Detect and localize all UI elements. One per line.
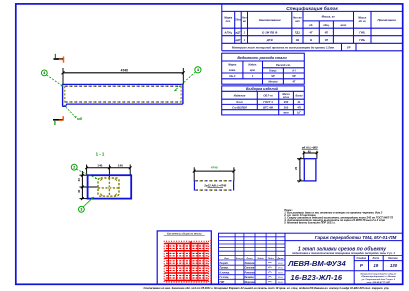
svg-text:Провер.: Провер. <box>220 268 229 270</box>
svg-text:Б-1М ПВ Ф: Б-1М ПВ Ф <box>262 31 278 35</box>
svg-text:Дата: Дата <box>276 258 284 260</box>
svg-text:Расход ст.: Расход ст. <box>276 63 291 67</box>
svg-text:Согласовано гл.инж. Заказчика: Согласовано гл.инж. Заказчика обл. №4 от… <box>144 286 390 290</box>
svg-text:Обоз: Обоз <box>235 19 242 22</box>
section 1-1 top dimension <box>85 165 131 178</box>
callout circle 3 section bottom <box>79 197 94 212</box>
svg-text:ул. Строителей дом 7 корп. 2: ул. Строителей дом 7 корп. 2 <box>361 278 396 281</box>
svg-text:шт: шт <box>295 20 300 23</box>
svg-text:Стадия: Стадия <box>357 257 367 260</box>
svg-text:4740: 4740 <box>211 165 218 169</box>
steel consumption table (vedomost) grid <box>222 53 305 84</box>
section 1-1 concrete outline <box>88 175 132 198</box>
title block center and right division lines <box>285 241 403 285</box>
svg-text:А-I: А-I <box>291 69 296 73</box>
svg-text:Н.контр.: Н.контр. <box>220 272 231 274</box>
beam top rebar dashed line <box>65 85 182 87</box>
svg-text:1В: 1В <box>296 38 300 42</box>
title block stage header <box>357 257 399 260</box>
svg-text:40: 40 <box>77 189 81 193</box>
svg-text:Эл-т: Эл-т <box>236 100 243 104</box>
weld leader mb at beam bottom-left <box>64 105 83 121</box>
svg-text:Казаков: Казаков <box>245 277 255 279</box>
callout circle 2 section top-left <box>71 164 97 179</box>
beam left stirrup dashed vertical <box>64 86 66 103</box>
red hatch grid <box>164 240 211 283</box>
svg-text:4740: 4740 <box>121 69 129 73</box>
svg-text:УР: УР <box>347 46 351 50</box>
svg-text:Кол: Кол <box>242 17 247 20</box>
svg-text:мин: мин <box>283 112 289 115</box>
title block stage values <box>360 263 398 268</box>
callout circle 4 left of beam <box>41 70 63 87</box>
svg-text:Соколов: Соколов <box>245 268 255 270</box>
svg-text:ЛЕВЯ-ВМ-ФУЗ4: ЛЕВЯ-ВМ-ФУЗ4 <box>287 259 346 268</box>
svg-text:Ст ВБПВЛ: Ст ВБПВЛ <box>232 106 247 110</box>
svg-text:Р: Р <box>360 263 363 268</box>
svg-text:09.05: 09.05 <box>278 273 283 275</box>
svg-text:1 - 1: 1 - 1 <box>96 151 105 156</box>
svg-text:Гараж переработки ТМ4, МУ-01-П: Гараж переработки ТМ4, МУ-01-ПМ <box>315 234 397 240</box>
section cut mark 1 top <box>54 54 64 63</box>
svg-text:Изделие: Изделие <box>234 94 246 98</box>
rebar detail pos.3 left dimension <box>297 157 304 182</box>
svg-text:40: 40 <box>77 178 81 182</box>
rebar detail pos.2 dimension <box>193 167 236 181</box>
section 1-1 left dimension <box>80 171 99 200</box>
svg-text:140: 140 <box>118 164 123 168</box>
svg-text:ГИБ: ГИБ <box>359 31 365 35</box>
svg-text:Наименование: Наименование <box>259 18 281 22</box>
svg-text:Подп.: Подп. <box>268 257 275 260</box>
specification table texts <box>223 5 396 50</box>
callout circle 4 right of beam <box>174 67 201 91</box>
beam elevation outline <box>62 84 183 107</box>
beam bottom rebar dashed line <box>65 101 182 103</box>
svg-text:200: 200 <box>284 100 289 104</box>
svg-text:подготовка и технологическая п: подготовка и технологическая планировка … <box>292 251 395 255</box>
svg-text:всех: всех <box>341 24 347 27</box>
svg-text:вДГ: вДГ <box>235 38 240 42</box>
svg-text:3: 3 <box>80 208 82 212</box>
svg-text:ед. кг: ед. кг <box>359 19 367 23</box>
rebar detail pos.3 top dimension <box>303 151 319 159</box>
section cut mark 1 bottom <box>53 116 63 125</box>
svg-text:09.05: 09.05 <box>278 282 283 284</box>
svg-text:140: 140 <box>97 164 102 168</box>
svg-text:арм.: арм. <box>250 69 256 72</box>
svg-text:ГД1: ГД1 <box>295 31 301 35</box>
section 1-1 stirrup cross ties <box>108 178 110 196</box>
svg-text:Лист: Лист <box>245 258 252 260</box>
svg-text:Разраб.: Разраб. <box>220 262 229 265</box>
svg-text:ГОСТ 4: ГОСТ 4 <box>263 100 273 104</box>
specification table grid <box>222 5 403 51</box>
svg-text:ГИП: ГИП <box>220 282 225 284</box>
title block signature rows <box>220 262 256 284</box>
svg-text:Ведомость расхода стали: Ведомость расхода стали <box>237 56 287 60</box>
title block organization cell <box>360 272 397 283</box>
svg-text:Как менять общую по месту: Как менять общую по месту <box>167 232 202 235</box>
svg-text:2: 2 <box>73 166 75 170</box>
svg-text:ЬГ: ЬГ <box>297 111 301 115</box>
svg-text:4Г: 4Г <box>292 80 295 84</box>
svg-text:ø8 АI L=980: ø8 АI L=980 <box>302 145 318 149</box>
svg-text:19: 19 <box>373 263 378 268</box>
svg-text:09.05: 09.05 <box>278 277 283 279</box>
svg-text:4: 4 <box>43 71 45 75</box>
svg-text:элем.: элем. <box>229 69 236 72</box>
title block signature squiggles and dates <box>268 262 272 282</box>
rebar selection table texts <box>232 87 303 115</box>
notes text block <box>283 208 393 225</box>
svg-text:20: 20 <box>294 166 298 169</box>
svg-text:130: 130 <box>390 263 398 268</box>
svg-text:Гл.спец.: Гл.спец. <box>220 277 230 279</box>
svg-text:Материал лист толщиной проката: Материал лист толщиной проката по всем р… <box>232 46 335 50</box>
svg-text:мб: мб <box>77 117 83 121</box>
svg-text:Масса: Масса <box>358 16 367 20</box>
steel consumption table texts <box>228 56 296 84</box>
svg-text:Марка: Марка <box>228 63 237 67</box>
section 1-1 corner rebar hooks <box>100 179 117 196</box>
svg-text:2ø12 АIII L=4740: 2ø12 АIII L=4740 <box>203 183 226 187</box>
svg-text:200: 200 <box>284 106 289 110</box>
red marked-up table box <box>157 231 211 284</box>
svg-text:ОБ?-т: ОБ?-т <box>263 94 273 98</box>
svg-text:ед.кг: ед.кг <box>283 96 290 99</box>
svg-text:поз.: поз. <box>226 20 231 23</box>
svg-text:Изм.: Изм. <box>224 258 229 260</box>
svg-text:од.: од. <box>309 23 313 27</box>
svg-text:ГИБ: ГИБ <box>359 38 365 42</box>
svg-text:Масса, кг: Масса, кг <box>322 15 336 19</box>
svg-text:Итого: Итого <box>269 80 278 84</box>
svg-text:№док: №док <box>257 257 264 260</box>
svg-text:Кол.уч: Кол.уч <box>236 258 244 260</box>
svg-text:16-В23-ЖЛ-16: 16-В23-ЖЛ-16 <box>291 273 343 282</box>
svg-text:Всего: Всего <box>295 95 303 98</box>
svg-text:1П: 1П <box>325 38 329 42</box>
rebar selection table (vyborka) grid <box>222 86 305 115</box>
svg-text:09.05: 09.05 <box>278 268 283 270</box>
svg-text:тел. 123-45-67 ТУ-МП: тел. 123-45-67 ТУ-МП <box>367 281 391 284</box>
svg-text:Примечание: Примечание <box>378 18 397 22</box>
svg-text:В: В <box>310 38 312 42</box>
svg-text:5. Монтаж вести согласно ППР 2: 5. Монтаж вести согласно ППР 2021 г. <box>284 220 335 224</box>
svg-text:Романов: Романов <box>245 272 256 274</box>
svg-text:09.05: 09.05 <box>278 263 283 265</box>
svg-text:4Г: 4Г <box>310 31 314 35</box>
title block left grid lines <box>219 233 403 284</box>
svg-text:Издел.: Издел. <box>248 63 257 67</box>
svg-text:Спецификация балок: Спецификация балок <box>286 5 338 12</box>
section 1-1 stirrup dashed <box>98 178 119 196</box>
svg-text:общ.: общ. <box>323 23 330 27</box>
svg-text:ВТС 4М: ВТС 4М <box>263 106 274 110</box>
bottom annotation text <box>144 286 390 290</box>
svg-text:«Промстройпроект» г. Москва: «Промстройпроект» г. Москва <box>361 275 396 278</box>
svg-text:Морозов: Морозов <box>245 282 256 284</box>
svg-text:45: 45 <box>308 149 311 153</box>
svg-text:4П: 4П <box>325 31 329 35</box>
beam right stirrup dashed vertical <box>180 86 182 102</box>
svg-text:41: 41 <box>298 100 301 104</box>
svg-text:Кол-во: Кол-во <box>293 16 302 20</box>
svg-text:Выборка изделий: Выборка изделий <box>246 87 279 91</box>
svg-text:Листов: Листов <box>387 257 398 260</box>
svg-text:Класс: Класс <box>269 69 277 73</box>
svg-text:Марка: Марка <box>224 16 233 20</box>
svg-text:ДГВ: ДГВ <box>266 38 273 42</box>
title block header labels row <box>224 257 284 260</box>
title block outer <box>219 233 403 284</box>
rebar detail pos.3 bar rect <box>304 159 316 181</box>
svg-text:Лист: Лист <box>372 257 380 260</box>
svg-text:ЧР: ЧР <box>271 74 275 78</box>
svg-text:вДГ: вДГ <box>235 31 240 35</box>
svg-text:ЧР: ЧР <box>292 74 296 78</box>
svg-text:АЛУц: АЛУц <box>223 31 232 35</box>
svg-text:4: 4 <box>197 68 199 72</box>
svg-text:4П: 4П <box>297 106 300 110</box>
rebar detail pos.2 bar <box>194 180 233 190</box>
svg-text:Открытое акционерное общ-во: Открытое акционерное общ-во <box>360 272 397 275</box>
beam elevation dimension line <box>62 68 185 84</box>
svg-text:Хомяков: Хомяков <box>244 263 255 265</box>
svg-text:АБ-4: АБ-4 <box>229 74 236 78</box>
